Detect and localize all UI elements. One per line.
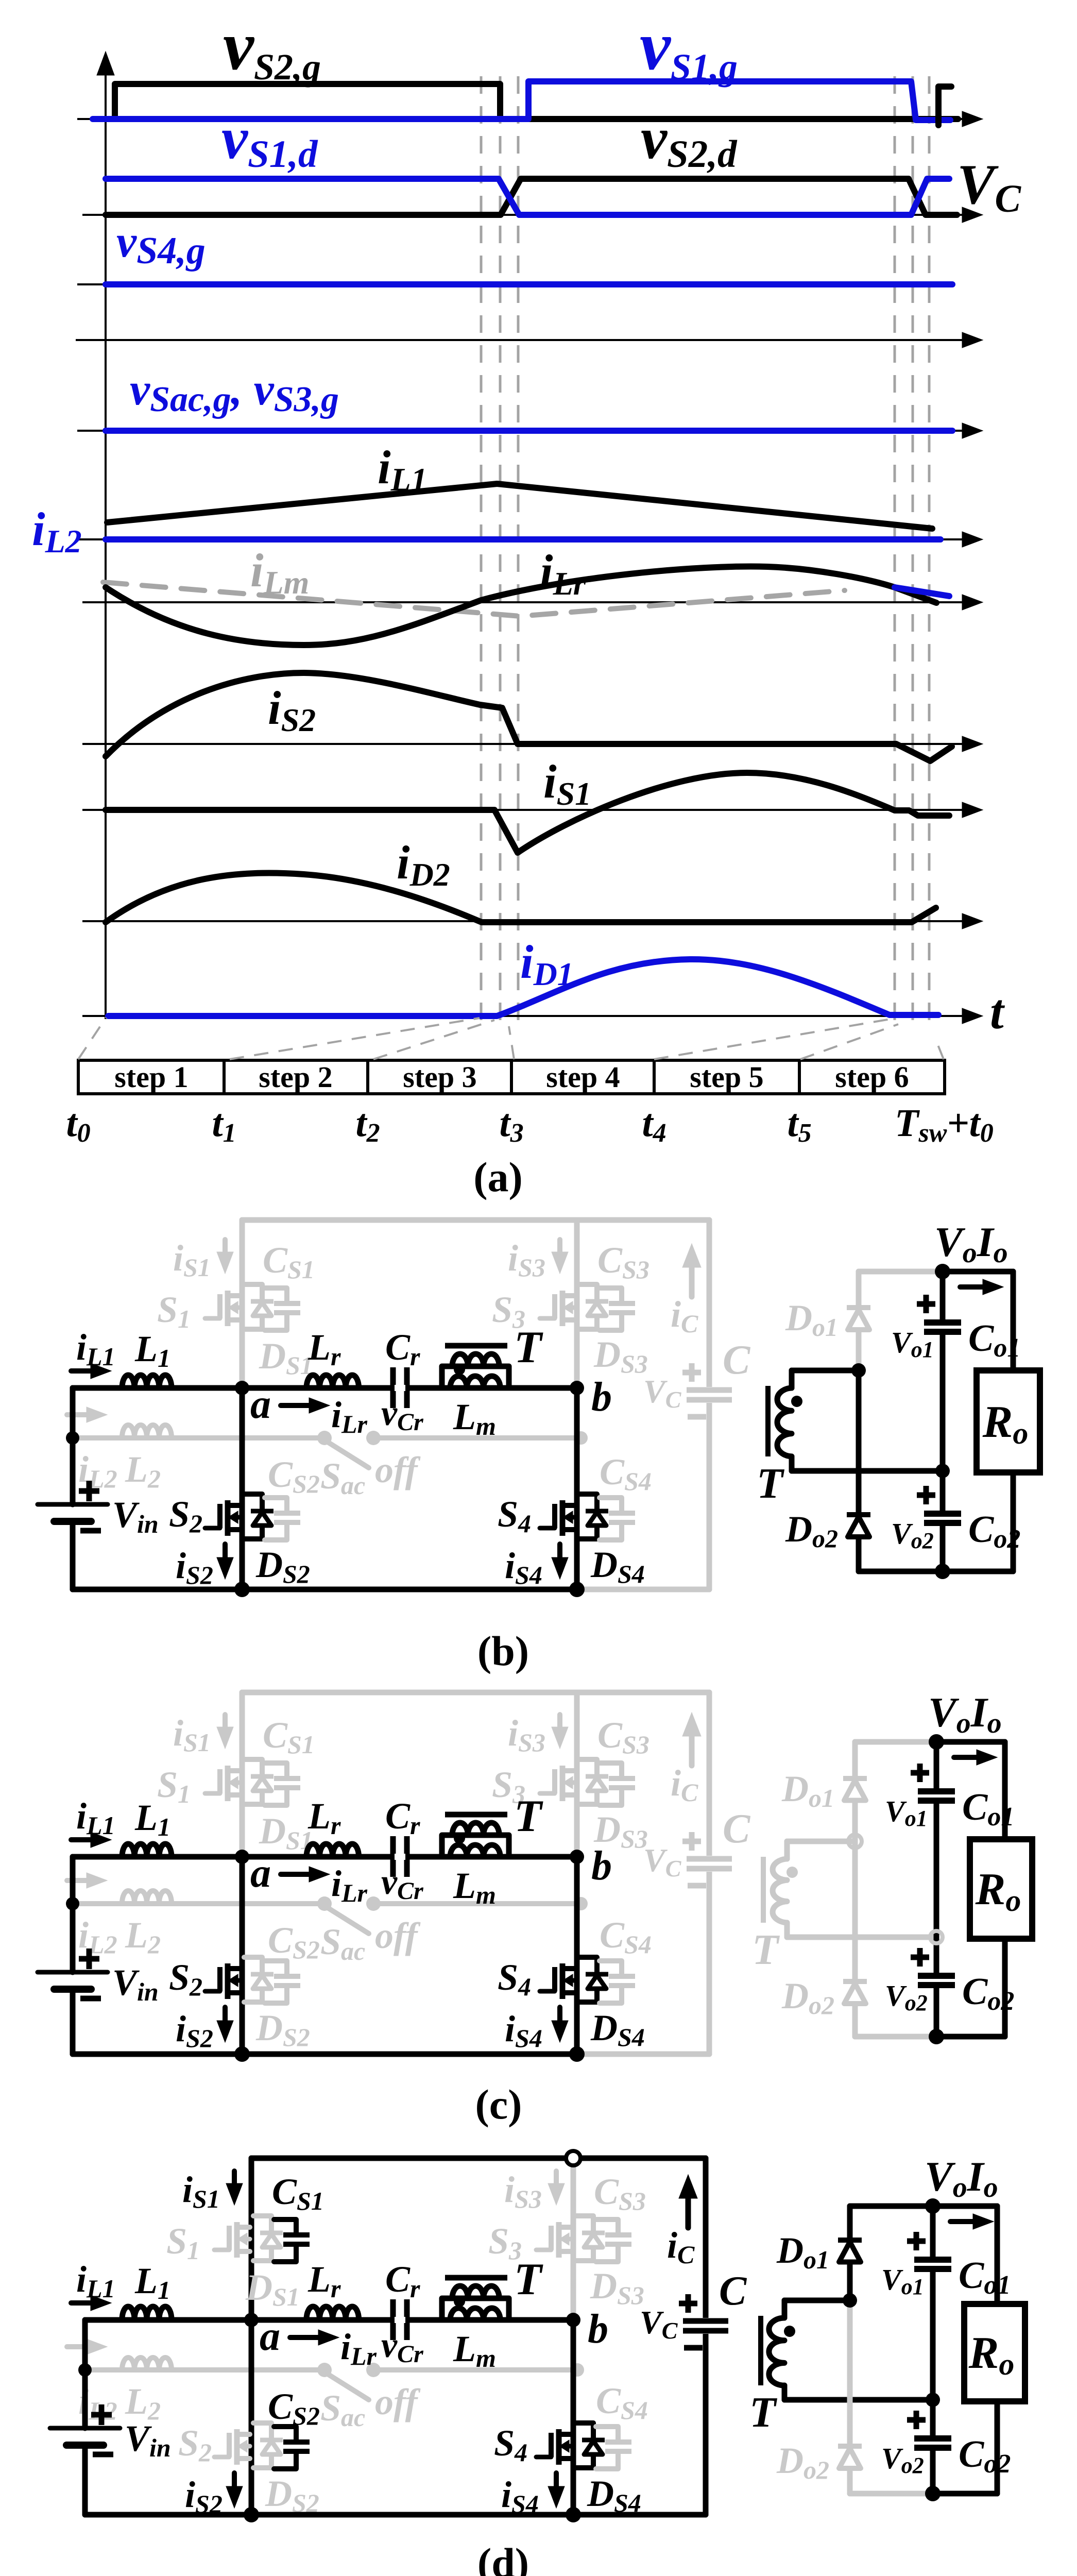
svg-text:b: b [591, 1843, 612, 1889]
svg-text:(b): (b) [477, 1628, 529, 1674]
svg-text:C: C [723, 1337, 751, 1383]
svg-text:C: C [719, 2268, 747, 2314]
svg-text:step 6: step 6 [835, 1060, 909, 1094]
svg-text:a: a [250, 1382, 271, 1427]
svg-text:step 2: step 2 [259, 1060, 332, 1094]
svg-text:T: T [514, 2255, 543, 2304]
svg-text:T: T [752, 1926, 780, 1974]
svg-text:step 1: step 1 [114, 1060, 188, 1094]
svg-text:step 3: step 3 [403, 1060, 476, 1094]
svg-text:off: off [375, 1449, 421, 1490]
svg-text:T: T [514, 1791, 543, 1841]
svg-text:(c): (c) [475, 2081, 522, 2128]
svg-text:b: b [591, 1375, 612, 1420]
svg-text:b: b [588, 2307, 608, 2352]
svg-text:(a): (a) [473, 1154, 523, 1200]
svg-text:step 4: step 4 [546, 1060, 620, 1094]
svg-text:T: T [514, 1323, 543, 1372]
svg-text:t: t [990, 984, 1005, 1039]
svg-text:step 5: step 5 [690, 1060, 763, 1094]
svg-text:(d): (d) [477, 2539, 529, 2576]
svg-text:a: a [250, 1851, 271, 1896]
svg-text:a: a [260, 2314, 280, 2359]
svg-text:off: off [375, 2381, 421, 2422]
svg-text:C: C [723, 1806, 751, 1852]
svg-text:T: T [749, 2388, 778, 2436]
svg-text:T: T [757, 1460, 785, 1507]
svg-text:off: off [375, 1915, 421, 1956]
